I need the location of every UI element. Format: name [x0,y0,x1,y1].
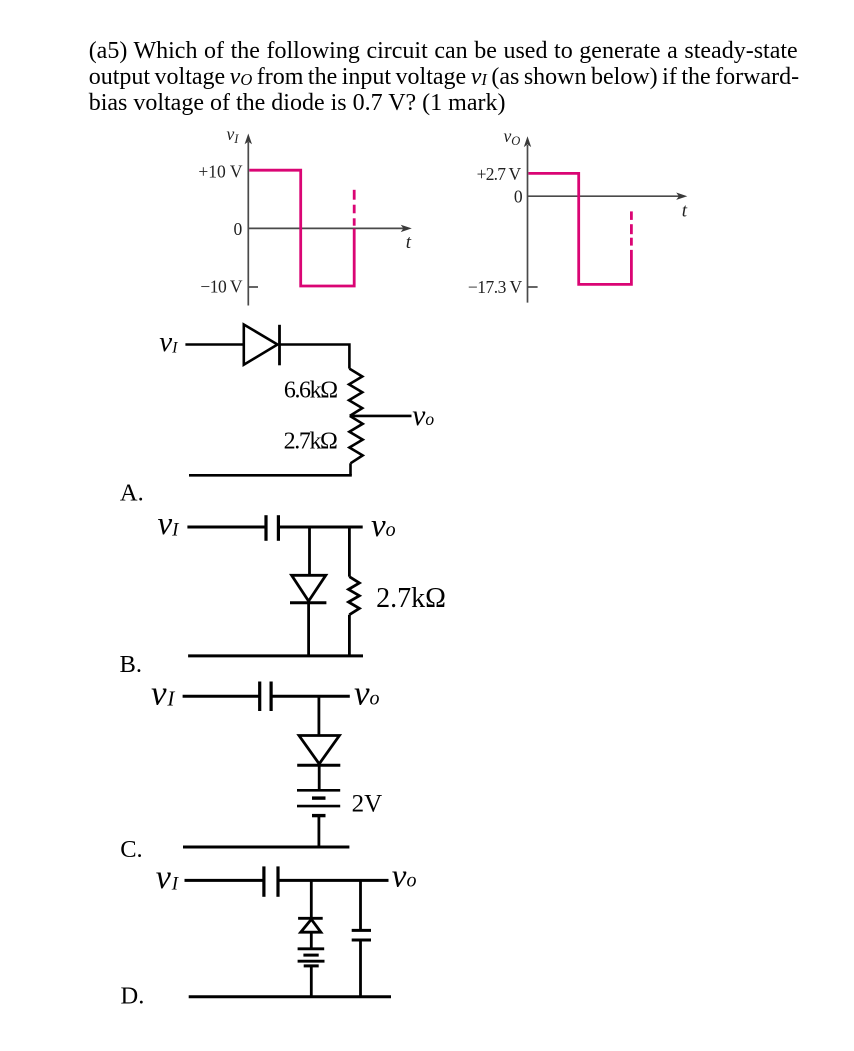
wire cap to vo (C) [271,695,350,698]
svg-text:D.: D. [121,982,145,1009]
resistor 2.7k (B) [349,577,360,615]
diode D cathode bar (A) [278,325,281,366]
capacitor C (C) right plate [270,682,273,712]
vI waveform rising edge (dashed) [353,190,356,226]
capacitor C2 (D) top plate [352,929,371,932]
vO waveform rising edge (dashed) [630,211,633,245]
vI plot vertical axis arrowhead [245,134,252,145]
svg-text:vI: vI [158,506,181,542]
svg-text:−17.3 V: −17.3 V [468,277,523,297]
svg-text:vI: vI [151,673,175,712]
resistor 6.6k (A) [349,369,362,416]
battery 2V (C) plate short 1 [312,796,326,799]
wire vI input (B) [187,526,264,529]
svg-text:+2.7 V: +2.7 V [477,164,522,184]
diode D cathode bar (D, on top) [298,917,323,920]
svg-text:6.6kΩ: 6.6kΩ [284,378,337,404]
battery 2V (C) plate long 1 [297,789,340,792]
capacitor C (C) left plate [258,682,261,712]
diode D cathode bar (B) [290,601,326,604]
svg-text:0: 0 [234,219,243,239]
wire diode to battery (D) [310,932,313,948]
capacitor C2 (D) bottom plate [352,939,371,942]
wire to diode (C) [317,696,320,735]
svg-text:2.7kΩ: 2.7kΩ [284,429,337,455]
capacitor C (B) right plate [277,515,280,541]
resistor 2.7k (A) [349,416,362,463]
wire diode to corner (A) [280,345,350,369]
svg-text:vo: vo [371,508,396,544]
wire bottom rail (D) [189,995,391,998]
svg-text:+10 V: +10 V [198,161,242,181]
wire vI input (D) [185,879,265,882]
vI waveform (solid) [249,170,354,286]
diode D (circuit D, pointing up) [301,919,321,932]
wire resistor bottom (A) [349,463,352,475]
diode D (circuit B) [292,575,326,601]
svg-text:2.7kΩ: 2.7kΩ [376,583,446,614]
battery (D) plate short 2 [304,964,319,967]
battery (D) plate long 1 [298,947,325,950]
svg-text:vO: vO [504,126,521,148]
vO waveform (solid) [528,173,631,284]
battery 2V (C) plate short 2 [312,814,326,817]
svg-text:0: 0 [514,186,523,206]
diode D (circuit C) [299,736,339,764]
wire to diode (D) [310,880,313,917]
wire to capacitor C2 (D) [359,880,362,929]
wire bottom rail (C) [183,846,349,849]
vI plot t-axis arrowhead [401,225,412,232]
vO plot vertical axis arrowhead [524,136,531,147]
vO plot vertical axis [527,145,529,303]
wire vo tap (A) [350,415,412,418]
wire cap to vo (D) [278,879,389,882]
svg-text:vo: vo [412,400,434,432]
capacitor C1 (D) left plate [262,866,265,896]
tick -10V [248,286,258,288]
svg-text:2V: 2V [352,790,383,817]
wire diode to bottom (B) [307,603,310,656]
vI plot vertical axis [247,142,249,306]
wire to diode (B) [308,527,311,575]
capacitor C (B) left plate [264,515,267,541]
svg-text:C.: C. [120,836,142,863]
battery (D) plate short 1 [303,954,318,957]
wire vI input (C) [183,695,260,698]
svg-text:vI: vI [156,859,180,896]
vO plot t-axis arrowhead [676,193,687,200]
svg-text:vo: vo [354,673,380,712]
svg-text:t: t [682,200,688,221]
wire cap to vo (B) [278,526,362,529]
wire capacitor C2 to bottom (D) [359,940,362,997]
svg-text:B.: B. [120,651,142,678]
wire bottom rail (B) [188,654,363,657]
svg-text:vI: vI [227,124,240,146]
wire bottom rail (A) [189,474,352,477]
battery (D) plate long 2 [298,960,325,963]
wire vI input (A) [185,343,243,346]
wire resistor to bottom (B) [348,615,351,656]
vI plot horizontal axis (t) [248,227,403,229]
capacitor C1 (D) right plate [276,866,279,896]
svg-text:vo: vo [392,859,417,895]
wire to resistor (B) [348,527,351,577]
wire battery to bottom (D) [310,966,313,997]
wire battery to bottom (C) [317,816,320,847]
svg-text:vI: vI [159,326,178,358]
diode D (circuit A) [244,325,278,365]
svg-text:t: t [406,232,412,253]
tick -17.3V [528,286,538,288]
diode D cathode bar (C) [297,764,340,767]
svg-text:−10 V: −10 V [200,277,242,297]
vO plot horizontal axis (t) [528,195,680,197]
svg-text:A.: A. [120,479,144,506]
wire diode to battery (C) [318,765,321,789]
battery 2V (C) plate long 2 [297,805,340,808]
